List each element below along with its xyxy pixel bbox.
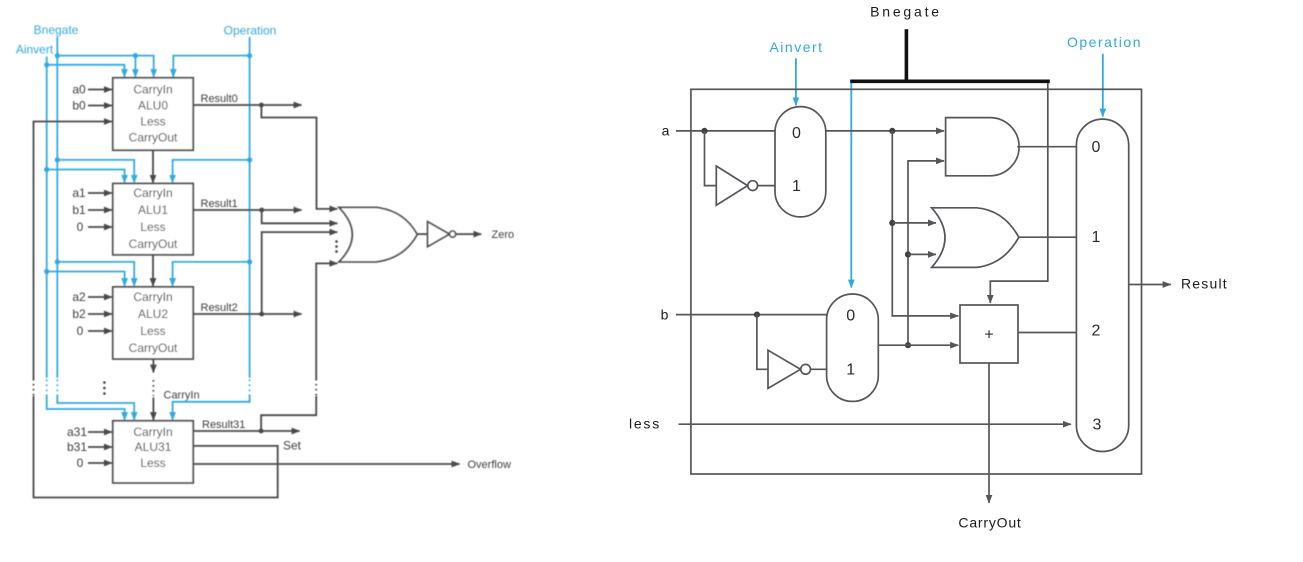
svg-text:b0: b0 — [72, 98, 86, 112]
or-gate right — [932, 208, 1019, 268]
wire b mux out to adder — [878, 344, 958, 346]
svg-text:Operation: Operation — [224, 24, 277, 38]
svg-text:CarryOut: CarryOut — [958, 515, 1021, 531]
ALU31 box — [113, 421, 193, 483]
svg-text:b1: b1 — [72, 203, 86, 217]
node input column ellipsis — [103, 381, 106, 395]
enclosure box — [691, 89, 1142, 474]
svg-text:CarryIn: CarryIn — [133, 425, 172, 439]
wire OR out to mux1 — [1019, 236, 1077, 238]
wire a vertical to adder — [892, 131, 958, 316]
adder — [960, 305, 1018, 363]
svg-text:Less: Less — [140, 114, 165, 128]
or-gate zero detector — [339, 207, 417, 262]
wire b input — [676, 314, 827, 316]
wire Result1 tap to OR — [262, 210, 338, 223]
svg-text:a1: a1 — [72, 186, 86, 200]
svg-text:0: 0 — [792, 125, 801, 142]
node junction dots blue — [44, 53, 252, 274]
wire b inverter to mux — [811, 368, 827, 370]
wire Operation branch ALU1 — [173, 160, 250, 183]
wire Bnegate bracket stem — [905, 29, 909, 81]
svg-text:Result1: Result1 — [201, 198, 238, 210]
and-gate — [946, 118, 1020, 176]
wire Bnegate branch ALU31 — [57, 396, 134, 421]
svg-text:less: less — [629, 416, 661, 432]
svg-text:CarryIn: CarryIn — [164, 389, 200, 401]
wire less input to mux3 — [679, 423, 1072, 425]
svg-text:CarryIn: CarryIn — [133, 290, 172, 304]
svg-text:Result: Result — [1181, 276, 1228, 292]
svg-text:a: a — [662, 122, 670, 138]
svg-text:ALU31: ALU31 — [135, 440, 172, 454]
svg-text:CarryIn: CarryIn — [133, 186, 172, 200]
wire Ainvert vertical break — [46, 380, 48, 397]
wire Zero output — [456, 233, 482, 235]
svg-text:1: 1 — [792, 178, 801, 195]
wire Bnegate branch ALU0 Binvert — [134, 56, 136, 77]
svg-text:Operation: Operation — [1067, 34, 1142, 50]
wire b branch to OR in2 — [908, 253, 936, 255]
wire Operation vertical break — [249, 380, 251, 397]
mux Ainvert — [775, 107, 826, 217]
svg-text:Result2: Result2 — [201, 302, 238, 314]
wire Operation branch ALU0 — [173, 56, 249, 77]
wire a branch to OR in1 — [892, 222, 936, 224]
wire CarryOut0 to CarryIn1 — [152, 150, 154, 183]
wire Result31 tap to OR — [261, 396, 316, 431]
inverter zero — [428, 222, 450, 247]
wire CarryOut1 to CarryIn2 — [152, 255, 154, 286]
wire a inverter to mux — [758, 185, 775, 187]
svg-text:Overflow: Overflow — [468, 459, 511, 471]
svg-text:b2: b2 — [72, 307, 86, 321]
svg-text:Zero: Zero — [492, 229, 515, 241]
wire Bnegate branch ALU1 — [57, 160, 134, 183]
wire AND out to mux0 — [1017, 146, 1076, 148]
svg-text:a0: a0 — [72, 82, 86, 96]
ALU2 box — [113, 287, 193, 359]
svg-text:Less: Less — [140, 456, 165, 470]
inverter a — [716, 166, 747, 205]
wire Ainvert branch ALU31 — [47, 396, 125, 421]
svg-text:0: 0 — [1092, 139, 1101, 156]
svg-text:a31: a31 — [67, 425, 87, 439]
wire adder out to mux2 — [1018, 332, 1076, 334]
svg-text:0: 0 — [77, 456, 84, 470]
wire CarryOut2 arrow down — [152, 359, 154, 373]
svg-text:0: 0 — [77, 324, 84, 338]
svg-text:Bnegate: Bnegate — [870, 4, 942, 20]
svg-text:ALU0: ALU0 — [138, 98, 168, 112]
wire b to inverter — [757, 315, 768, 370]
wire a mux out to AND — [826, 130, 944, 132]
wire carry chain into ALU31 — [152, 398, 154, 421]
wire a input — [676, 130, 775, 132]
svg-text:CarryOut: CarryOut — [129, 237, 178, 251]
svg-text:b: b — [661, 306, 669, 322]
wire Ainvert branch ALU1 — [47, 170, 125, 183]
svg-text:3: 3 — [1093, 417, 1102, 434]
svg-text:1: 1 — [846, 362, 855, 379]
wire Ainvert branch ALU0 — [47, 65, 125, 77]
wire Result0 tap to OR — [261, 105, 337, 209]
svg-text:CarryIn: CarryIn — [133, 82, 172, 96]
wire Set feedback loop to Less of ALU0 — [34, 396, 278, 498]
svg-text:+: + — [984, 327, 993, 344]
svg-text:Bnegate: Bnegate — [34, 23, 79, 37]
wire Bnegate to adder CarryIn — [990, 83, 1048, 303]
svg-text:Ainvert: Ainvert — [769, 39, 823, 55]
svg-text:1: 1 — [1092, 229, 1101, 246]
wire Ainvert select arrow — [795, 58, 797, 105]
svg-text:Result31: Result31 — [202, 419, 245, 431]
wire carry chain break dots — [152, 380, 154, 396]
wire Bnegate vertical break — [56, 380, 58, 397]
wire CarryOut — [988, 363, 990, 503]
svg-text:CarryOut: CarryOut — [129, 130, 178, 144]
svg-text:0: 0 — [77, 220, 84, 234]
wire b vertical to AND in2 — [908, 161, 944, 345]
svg-text:ALU1: ALU1 — [138, 203, 168, 217]
wire OR to inverter — [417, 233, 427, 235]
wire Operation select arrow — [1102, 54, 1104, 117]
wire Bnegate select drop — [850, 83, 852, 288]
ALU1 box — [113, 184, 193, 255]
wire Operation branch ALU31 — [173, 396, 250, 421]
mux Operation result — [1076, 119, 1128, 451]
wire Operation branch ALU2 — [173, 262, 250, 286]
wire Operation vertical — [249, 37, 251, 378]
wire Bnegate vertical — [56, 37, 58, 378]
ALU0 box — [113, 78, 193, 150]
wire Bnegate bracket bar — [850, 80, 1050, 84]
wire Result2 tap to OR — [262, 232, 338, 314]
svg-text:0: 0 — [846, 307, 855, 324]
wire Bnegate branch ALU2 — [57, 262, 134, 286]
svg-text:Less: Less — [140, 220, 165, 234]
wire Overflow output — [193, 463, 459, 465]
svg-text:Result0: Result0 — [201, 93, 238, 105]
node OR input ellipsis — [335, 240, 338, 253]
svg-text:CarryOut: CarryOut — [129, 341, 178, 355]
svg-text:ALU2: ALU2 — [138, 307, 168, 321]
wire Result output — [1129, 284, 1171, 286]
svg-text:Ainvert: Ainvert — [16, 43, 54, 57]
inverter b — [768, 350, 801, 388]
wire a to inverter — [705, 131, 717, 186]
mux Bnegate — [827, 294, 879, 401]
svg-text:2: 2 — [1092, 323, 1101, 340]
svg-text:Set: Set — [283, 439, 302, 453]
wire Ainvert vertical — [46, 57, 48, 378]
svg-text:a2: a2 — [72, 290, 86, 304]
svg-text:b31: b31 — [67, 440, 87, 454]
wire Bnegate branch ALU0 — [57, 56, 153, 77]
svg-text:Less: Less — [140, 324, 165, 338]
wire Ainvert branch ALU2 — [47, 272, 125, 287]
